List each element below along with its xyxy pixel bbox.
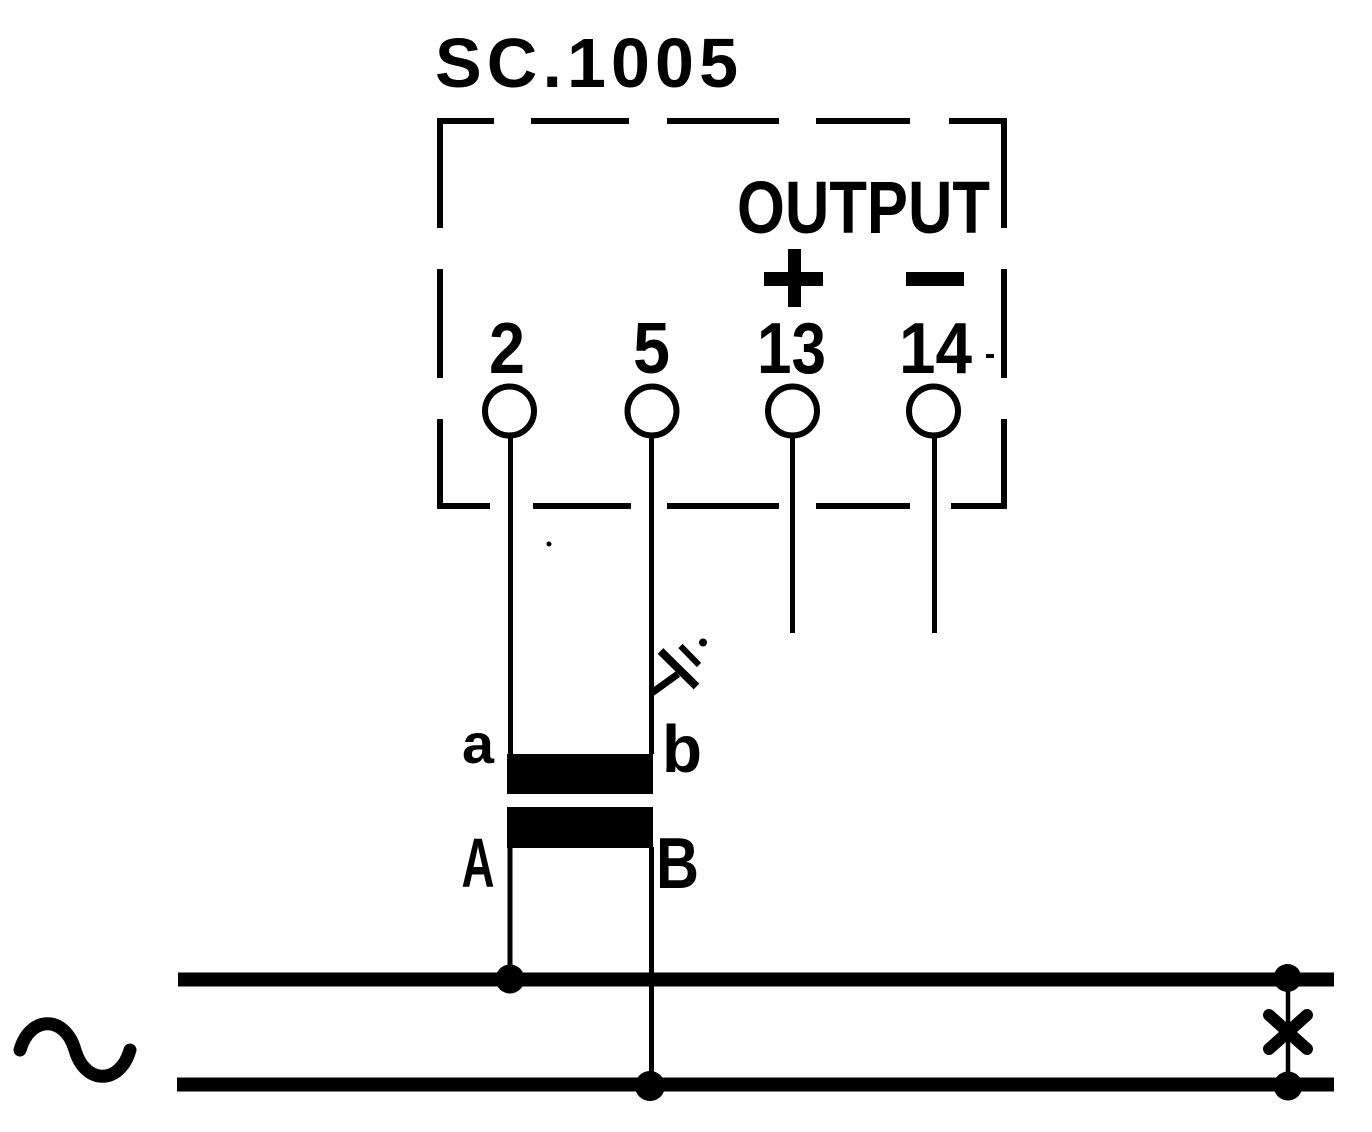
svg-text:a: a — [462, 712, 495, 775]
svg-text:A: A — [462, 824, 495, 902]
svg-text:2: 2 — [489, 309, 525, 389]
svg-text:b: b — [662, 712, 702, 787]
svg-text:OUTPUT: OUTPUT — [737, 166, 990, 249]
svg-text:13: 13 — [757, 309, 826, 389]
svg-text:5: 5 — [633, 309, 670, 389]
svg-text:14: 14 — [899, 309, 972, 389]
svg-text:SC.1005: SC.1005 — [435, 24, 738, 102]
svg-text:B: B — [656, 824, 699, 904]
